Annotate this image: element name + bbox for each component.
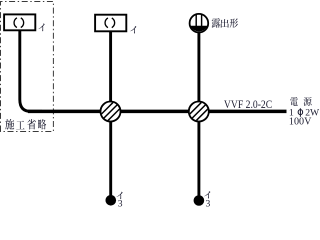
label 露出形 (exposed type)	[212, 18, 238, 28]
svg-text:VVF 2.0-2C: VVF 2.0-2C	[224, 97, 272, 111]
lamp fixture L1 (fluorescent, circuit イ) inside omitted area	[4, 14, 35, 30]
label: 施工省略 (construction omitted)	[5, 119, 46, 130]
label イ3 for S2	[204, 191, 210, 209]
junction box J1 (VVF)	[100, 101, 120, 121]
svg-text:100V: 100V	[289, 116, 312, 127]
ceiling light CL1 (hook ceiling, exposed type)	[190, 14, 209, 33]
lamp fixture L2 (fluorescent, circuit イ)	[95, 15, 126, 32]
wire: ceiling light CL1 to junction box J2	[197, 30, 200, 103]
label イ for L2	[130, 26, 136, 33]
boundary: construction-omitted area (dash-dot box)	[1, 2, 54, 132]
label イ for L1	[39, 24, 45, 32]
switch S2 (3-way, circuit イ)	[194, 195, 205, 206]
phi symbol of 1φ2W	[298, 108, 303, 117]
wire: junction box J1 to switch S1	[109, 121, 112, 196]
junction box J2 (VVF)	[189, 101, 209, 121]
wire: lamp L2 to junction box J1	[109, 31, 112, 103]
switch S1 (3-way, circuit イ)	[106, 195, 117, 206]
main wire run to power source	[28, 110, 287, 114]
svg-text:3: 3	[118, 198, 123, 209]
svg-text:3: 3	[206, 198, 211, 209]
label: power source 電源 1φ2W 100V	[289, 97, 320, 127]
label イ3 for S1	[117, 192, 123, 210]
wire: lamp L1 drop + curve into main run	[20, 30, 42, 111]
wire: junction box J2 to switch S2	[197, 121, 200, 196]
